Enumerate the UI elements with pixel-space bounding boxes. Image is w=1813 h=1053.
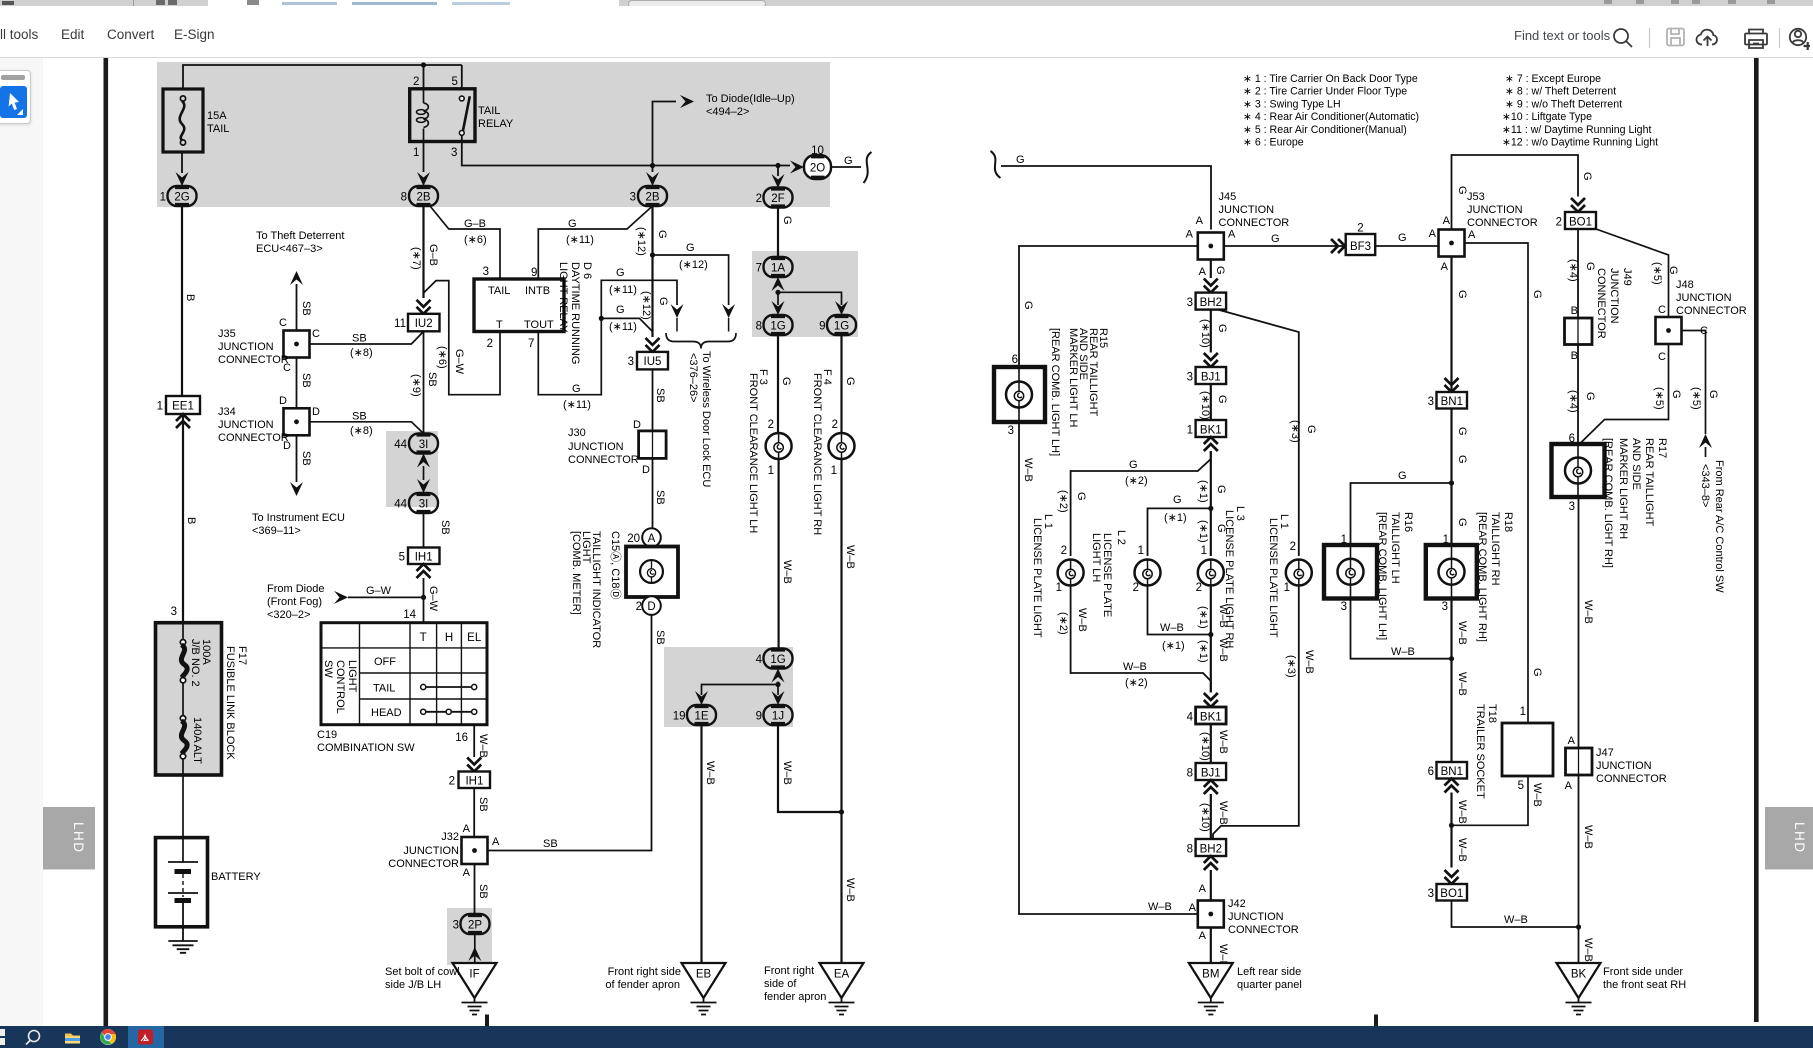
svg-text:G: G bbox=[686, 242, 695, 254]
label set bolt of cowl side bbox=[385, 966, 460, 991]
wire: F17 to battery bbox=[182, 775, 184, 862]
svg-text:<494–2>: <494–2> bbox=[706, 106, 749, 118]
svg-text:[REAR COMB. LIGHT RH]: [REAR COMB. LIGHT RH] bbox=[1476, 512, 1488, 642]
svg-text:2: 2 bbox=[449, 776, 455, 788]
label To Instrument ECU bbox=[252, 512, 345, 537]
combination switch C19 table bbox=[321, 623, 487, 725]
svg-text:G: G bbox=[656, 230, 668, 239]
svg-text:(∗3): (∗3) bbox=[1289, 420, 1301, 443]
svg-text:A: A bbox=[1189, 902, 1197, 914]
svg-text:SB: SB bbox=[654, 490, 666, 505]
wire W-B: R16 pin3 joins R18 wire bbox=[1351, 599, 1452, 659]
connector 2 BF3 bbox=[1346, 223, 1376, 256]
svg-text:Front side under: Front side under bbox=[1603, 966, 1683, 978]
svg-text:quarter panel: quarter panel bbox=[1237, 979, 1302, 991]
svg-text:1: 1 bbox=[1187, 425, 1193, 437]
svg-text:(∗10): (∗10) bbox=[1199, 803, 1211, 832]
arrow into 1G(9) bbox=[835, 301, 848, 315]
svg-text:3: 3 bbox=[1442, 601, 1448, 613]
svg-text:G: G bbox=[1214, 266, 1226, 275]
svg-text:JUNCTION: JUNCTION bbox=[218, 419, 274, 431]
svg-text:3: 3 bbox=[483, 266, 489, 278]
svg-text:W–B: W–B bbox=[1303, 650, 1315, 674]
svg-text:A: A bbox=[1568, 735, 1576, 747]
fusible link block F17 bbox=[156, 623, 222, 775]
wire G: J53 up-over to BO1 bbox=[1452, 155, 1594, 230]
wire: theft/instrument SB column bbox=[297, 284, 313, 482]
svg-text:G: G bbox=[1584, 262, 1596, 271]
svg-text:2B: 2B bbox=[645, 192, 659, 204]
junction connector J32 bbox=[388, 831, 500, 879]
svg-text:2F: 2F bbox=[771, 193, 784, 205]
svg-text:G: G bbox=[572, 383, 581, 395]
gray power-supply shade box bbox=[157, 62, 830, 207]
chevrons into IU5 bbox=[646, 338, 660, 352]
svg-text:2G: 2G bbox=[174, 192, 189, 204]
svg-text:W–B: W–B bbox=[1217, 604, 1229, 628]
wire G: J45 right to BF3 bbox=[1224, 233, 1345, 246]
wire: relay pin1 to 2B(8) bbox=[423, 142, 425, 173]
gray shade box 1A/1G connectors bbox=[752, 251, 858, 337]
svg-text:∗ 4 : Rear Air Conditioner(Aut: ∗ 4 : Rear Air Conditioner(Automatic) bbox=[1243, 111, 1419, 123]
svg-text:(∗10): (∗10) bbox=[1199, 732, 1211, 761]
svg-text:BK: BK bbox=[1571, 969, 1587, 981]
page left border bbox=[104, 58, 109, 1026]
svg-text:2: 2 bbox=[832, 419, 838, 431]
label EA front right side of fender apron bbox=[764, 965, 826, 1003]
svg-text:W–B: W–B bbox=[1076, 608, 1088, 632]
svg-text:44: 44 bbox=[394, 439, 407, 451]
wire: fuse top to relay pins 2 and 5 bbox=[183, 62, 462, 89]
svg-text:J35: J35 bbox=[218, 328, 236, 340]
wire: to-diode branch bbox=[653, 102, 677, 166]
svg-text:BK1: BK1 bbox=[1200, 425, 1222, 437]
arrow into 1E bbox=[695, 691, 708, 705]
svg-text:5: 5 bbox=[1518, 780, 1524, 792]
svg-text:(∗11): (∗11) bbox=[609, 284, 637, 296]
label C19 COMBINATION SW bbox=[317, 729, 415, 754]
svg-text:(∗5): (∗5) bbox=[1651, 262, 1663, 285]
wire G (*2): BK1 branch to L1a bbox=[1057, 451, 1211, 557]
svg-text:A: A bbox=[1196, 215, 1204, 227]
svg-text:To Diode(Idle–Up): To Diode(Idle–Up) bbox=[706, 93, 795, 105]
svg-text:LIGHT: LIGHT bbox=[346, 660, 358, 693]
connector 10 2O bbox=[804, 145, 831, 179]
svg-text:JUNCTION: JUNCTION bbox=[1608, 268, 1620, 324]
svg-text:(∗12): (∗12) bbox=[635, 227, 647, 256]
connector 8 BH2 bbox=[1187, 839, 1227, 856]
svg-text:3I: 3I bbox=[419, 499, 429, 511]
wire G-B (*7): 2B(8) to IU2 bbox=[410, 206, 439, 298]
connector 3 BO1 bbox=[1428, 884, 1467, 901]
chevrons into BO1b bbox=[1445, 870, 1459, 884]
chevrons into BF3 bbox=[1331, 239, 1345, 253]
svg-text:J49: J49 bbox=[1621, 268, 1633, 286]
ground BK bbox=[1557, 963, 1601, 1015]
svg-text:DAYTIME RUNNING: DAYTIME RUNNING bbox=[569, 262, 581, 364]
connector 6 BN1 bbox=[1428, 762, 1467, 779]
svg-text:CONTROL: CONTROL bbox=[334, 660, 346, 714]
svg-text:∗ 6 : Europe: ∗ 6 : Europe bbox=[1243, 137, 1304, 149]
wire SB: J32 to 2P bbox=[475, 864, 490, 914]
from diode (front fog) feed bbox=[267, 583, 424, 621]
arrow up to theft deterrent bbox=[290, 271, 303, 285]
svg-text:∗ 2 : Tire Carrier Under Floor: ∗ 2 : Tire Carrier Under Floor Type bbox=[1243, 86, 1407, 98]
svg-text:EB: EB bbox=[696, 969, 712, 981]
chevrons into BH2 bbox=[1204, 279, 1218, 293]
svg-text:H: H bbox=[445, 632, 453, 644]
svg-text:1: 1 bbox=[768, 465, 774, 477]
svg-text:SB: SB bbox=[654, 388, 666, 403]
svg-text:(∗6): (∗6) bbox=[464, 234, 487, 246]
svg-text:TOUT: TOUT bbox=[524, 319, 554, 331]
svg-text:W–B: W–B bbox=[844, 878, 856, 902]
wire G: J53 right to T18 pin1 bbox=[1465, 243, 1544, 723]
svg-text:9: 9 bbox=[756, 711, 762, 723]
arrow from rear AC control bbox=[1699, 434, 1712, 457]
svg-text:SB: SB bbox=[543, 838, 558, 850]
svg-text:19: 19 bbox=[673, 711, 686, 723]
svg-text:LIGHT LH: LIGHT LH bbox=[1090, 533, 1102, 582]
svg-text:8: 8 bbox=[756, 321, 762, 333]
svg-text:BK1: BK1 bbox=[1200, 712, 1222, 724]
svg-text:A: A bbox=[463, 823, 471, 835]
svg-text:∗ 3 : Swing Type LH: ∗ 3 : Swing Type LH bbox=[1243, 98, 1341, 110]
svg-text:7: 7 bbox=[756, 263, 762, 275]
svg-text:W–B: W–B bbox=[1456, 672, 1468, 696]
svg-text:TAIL: TAIL bbox=[207, 123, 229, 135]
svg-text:ECU<467–3>: ECU<467–3> bbox=[256, 243, 323, 255]
svg-text:16: 16 bbox=[455, 732, 468, 744]
chevrons into IU2 bbox=[417, 300, 431, 314]
svg-text:2: 2 bbox=[1556, 217, 1562, 229]
gray shade box 2P connector bbox=[447, 908, 492, 965]
svg-text:C: C bbox=[1658, 351, 1666, 363]
svg-text:LIGHT RELAY: LIGHT RELAY bbox=[557, 262, 569, 333]
svg-text:BM: BM bbox=[1202, 969, 1219, 981]
wire G: BN1 to R18, branch R16 bbox=[1341, 409, 1468, 547]
wire W-B: T18 pin5 to junction bbox=[1452, 776, 1544, 825]
svg-text:G: G bbox=[1305, 425, 1317, 434]
svg-text:(∗2): (∗2) bbox=[1125, 677, 1148, 689]
wire 1G(4) to 1E and 1J bbox=[702, 682, 781, 696]
lamp F4 front clearance light RH bbox=[829, 433, 855, 459]
wire G-B (*6): 2B(8) diagonal to daytime relay TAIL pin3 bbox=[430, 206, 500, 279]
svg-text:G: G bbox=[1531, 290, 1543, 299]
svg-text:W–B: W–B bbox=[1504, 914, 1528, 926]
svg-text:G–B: G–B bbox=[427, 244, 439, 266]
svg-text:(∗2): (∗2) bbox=[1057, 490, 1069, 513]
wire G (*11): TOUT pin7 net bbox=[538, 267, 677, 411]
svg-text:To Instrument ECU: To Instrument ECU bbox=[252, 512, 345, 524]
svg-text:1A: 1A bbox=[771, 263, 785, 275]
svg-text:R17: R17 bbox=[1656, 438, 1668, 458]
connectors 44 3I pair bbox=[394, 434, 438, 454]
svg-text:G–W: G–W bbox=[453, 349, 465, 375]
battery bbox=[156, 838, 262, 927]
svg-text:Front right: Front right bbox=[764, 965, 814, 977]
svg-text:1: 1 bbox=[831, 465, 837, 477]
svg-text:(∗8): (∗8) bbox=[350, 347, 373, 359]
svg-text:C: C bbox=[312, 328, 320, 340]
svg-text:1: 1 bbox=[1056, 582, 1062, 594]
wire G (*12): 2B(3) column to IU5 bbox=[635, 206, 669, 337]
wire W-B: C19 pin16 to IH1(2) bbox=[455, 725, 489, 758]
svg-text:W–B: W–B bbox=[1022, 458, 1034, 482]
taillight R17 rear taillight and side marker RH bbox=[1552, 444, 1605, 513]
svg-text:20: 20 bbox=[627, 533, 640, 545]
svg-text:1: 1 bbox=[157, 401, 163, 413]
svg-text:W–B: W–B bbox=[1217, 638, 1229, 662]
junction connector J35 bbox=[218, 317, 320, 374]
svg-text:W–B: W–B bbox=[781, 560, 793, 584]
ground below battery bbox=[168, 903, 197, 953]
wire W-B: F4 to EA junction bbox=[831, 459, 856, 963]
svg-text:LHD: LHD bbox=[1792, 822, 1807, 854]
label L1 license plate light (right) bbox=[1267, 514, 1290, 638]
wire SB: meter D down and left to J32 bbox=[488, 615, 667, 851]
svg-text:G: G bbox=[1456, 290, 1468, 299]
chevrons below IH1 pointing up bbox=[417, 564, 431, 578]
svg-text:A: A bbox=[1468, 229, 1476, 241]
svg-text:(∗3): (∗3) bbox=[1285, 655, 1297, 678]
svg-text:of fender apron: of fender apron bbox=[605, 979, 680, 991]
arrow into 2B(8) bbox=[417, 172, 430, 186]
svg-text:COMBINATION SW: COMBINATION SW bbox=[317, 742, 415, 754]
svg-text:A: A bbox=[1199, 930, 1207, 942]
wire SB: 3I to IH1 bbox=[424, 513, 452, 548]
svg-text:FUSIBLE LINK BLOCK: FUSIBLE LINK BLOCK bbox=[224, 646, 236, 760]
label R17 bbox=[1602, 438, 1668, 568]
legend column 2 bbox=[1502, 73, 1658, 149]
svg-text:J42: J42 bbox=[1228, 898, 1246, 910]
svg-text:[REAR COMB. LIGHT RH]: [REAR COMB. LIGHT RH] bbox=[1602, 438, 1614, 568]
wire B: EE1 to F17 bbox=[171, 414, 197, 622]
svg-text:side J/B LH: side J/B LH bbox=[385, 979, 441, 991]
svg-text:1: 1 bbox=[160, 192, 166, 204]
arrow into 1J bbox=[772, 691, 785, 705]
svg-text:G: G bbox=[1584, 392, 1596, 401]
svg-text:JUNCTION: JUNCTION bbox=[1219, 204, 1275, 216]
svg-text:A: A bbox=[1186, 229, 1194, 241]
label L3 license plate light RH bbox=[1223, 506, 1246, 648]
svg-text:(∗1): (∗1) bbox=[1197, 640, 1209, 663]
wire fuse to 2G bbox=[181, 152, 183, 173]
wire W-B: F3 to 1G(4) bbox=[768, 459, 793, 649]
svg-text:11: 11 bbox=[394, 318, 406, 330]
svg-text:G: G bbox=[1215, 485, 1227, 494]
arrow to diode bbox=[680, 95, 694, 108]
svg-text:D: D bbox=[312, 406, 320, 418]
svg-text:W–B: W–B bbox=[1456, 621, 1468, 645]
svg-text:JUNCTION: JUNCTION bbox=[403, 845, 459, 857]
svg-text:2O: 2O bbox=[810, 163, 825, 175]
connector 3 2P bbox=[453, 914, 490, 934]
svg-text:3: 3 bbox=[451, 147, 457, 159]
wire G (*11): INTB pin9 to 2B(3) bbox=[538, 206, 652, 279]
wire G from 2O to break bbox=[831, 155, 861, 167]
svg-text:∗ 8 : w/ Theft Deterrent: ∗ 8 : w/ Theft Deterrent bbox=[1505, 86, 1616, 98]
svg-text:∗12 : w/o Daytime Running Ligh: ∗12 : w/o Daytime Running Light bbox=[1502, 137, 1658, 149]
svg-text:<369–11>: <369–11> bbox=[252, 525, 301, 537]
svg-text:D: D bbox=[647, 601, 655, 613]
svg-text:G: G bbox=[1216, 324, 1228, 333]
wire SB (*8) J35 to IU2 bbox=[310, 332, 424, 360]
wire G: BF3 to J53 bbox=[1375, 232, 1438, 246]
svg-text:A: A bbox=[1443, 215, 1451, 227]
junction connector J42 bbox=[1189, 898, 1299, 942]
svg-text:2: 2 bbox=[1290, 541, 1296, 553]
label To Diode(Idle-Up) bbox=[706, 93, 795, 118]
wire: drop to 2F bbox=[777, 166, 779, 177]
svg-text:SB: SB bbox=[300, 451, 312, 466]
label To Theft Deterrent ECU bbox=[256, 230, 344, 255]
svg-text:Front right side: Front right side bbox=[608, 966, 681, 978]
svg-text:(Front Fog): (Front Fog) bbox=[267, 596, 322, 608]
arrow into 2O bbox=[790, 161, 804, 174]
svg-text:3: 3 bbox=[1341, 601, 1347, 613]
taillight R16 taillight LH bbox=[1324, 545, 1377, 613]
svg-text:(∗1): (∗1) bbox=[1162, 640, 1185, 652]
svg-text:G: G bbox=[1531, 668, 1543, 677]
svg-text:J53: J53 bbox=[1467, 191, 1485, 203]
svg-text:IH1: IH1 bbox=[415, 552, 433, 564]
svg-text:(∗10): (∗10) bbox=[1199, 319, 1211, 348]
wire G (*12) branch to wireless 2 bbox=[653, 242, 729, 305]
svg-text:BJ1: BJ1 bbox=[1201, 768, 1221, 780]
svg-text:<343–8>: <343–8> bbox=[1699, 464, 1711, 507]
chevrons into BN1 bbox=[1445, 378, 1459, 392]
wire W-B: 1J joins F4 wire bbox=[778, 725, 842, 812]
svg-text:TAILLIGHT LH: TAILLIGHT LH bbox=[1389, 512, 1401, 584]
svg-text:CONNECTOR: CONNECTOR bbox=[1596, 773, 1667, 785]
svg-text:To Theft Deterrent: To Theft Deterrent bbox=[256, 230, 344, 242]
label BM left rear side quarter panel bbox=[1237, 966, 1302, 991]
svg-text:LICENSE PLATE LIGHT: LICENSE PLATE LIGHT bbox=[1031, 518, 1043, 638]
svg-text:T: T bbox=[496, 319, 503, 331]
svg-text:BO1: BO1 bbox=[1440, 888, 1463, 900]
arrow up into 3I upper bbox=[417, 454, 430, 468]
svg-text:JUNCTION: JUNCTION bbox=[1596, 760, 1652, 772]
svg-text:4: 4 bbox=[756, 654, 763, 666]
arrow up into 1A bottom bbox=[772, 277, 785, 291]
svg-text:W–B: W–B bbox=[1148, 901, 1172, 913]
svg-text:IU2: IU2 bbox=[415, 318, 433, 330]
svg-text:(∗2): (∗2) bbox=[1125, 475, 1148, 487]
label EB front right side of fender apron bbox=[605, 966, 681, 991]
wire G: 1G(8) to F3 lamp bbox=[768, 335, 792, 433]
connector 4 BK1 bbox=[1187, 707, 1227, 724]
svg-text:B: B bbox=[184, 294, 196, 301]
svg-text:(∗1): (∗1) bbox=[1197, 606, 1209, 629]
svg-text:A: A bbox=[1441, 261, 1449, 273]
svg-text:JUNCTION: JUNCTION bbox=[1467, 204, 1523, 216]
wire G (*1): BK1 to L3, branch L2 bbox=[1138, 451, 1227, 557]
svg-text:(∗9): (∗9) bbox=[410, 374, 422, 397]
svg-text:2B: 2B bbox=[416, 192, 430, 204]
svg-text:Left rear side: Left rear side bbox=[1237, 966, 1301, 978]
wire W-B: 1E to EB ground bbox=[702, 725, 717, 963]
wire 1A to 1G pair bbox=[775, 290, 841, 305]
label L1 license plate light (left) bbox=[1031, 514, 1054, 638]
svg-text:[REAR COMB. LIGHT LH]: [REAR COMB. LIGHT LH] bbox=[1049, 328, 1061, 456]
lamp L3 license plate light RH bbox=[1198, 560, 1224, 586]
svg-text:2: 2 bbox=[636, 601, 642, 613]
chevrons into BJ1 bbox=[1204, 353, 1218, 367]
svg-text:G: G bbox=[1456, 427, 1468, 436]
svg-text:CONNECTOR: CONNECTOR bbox=[388, 858, 459, 870]
svg-text:2P: 2P bbox=[468, 920, 482, 932]
svg-text:W–B: W–B bbox=[1582, 600, 1594, 624]
wire G (*5): J48 down to R17 pin6 bbox=[1580, 344, 1683, 444]
svg-text:L 2: L 2 bbox=[1115, 530, 1127, 545]
svg-text:(∗10): (∗10) bbox=[1199, 391, 1211, 420]
svg-text:G: G bbox=[616, 304, 625, 316]
svg-text:G: G bbox=[568, 218, 577, 230]
svg-text:G–W: G–W bbox=[366, 585, 392, 597]
junction connector J48 bbox=[1656, 279, 1747, 363]
junction connector J30 bbox=[568, 427, 666, 466]
svg-text:A: A bbox=[492, 836, 500, 848]
wire W-B: BO1b to BK junction bbox=[1452, 901, 1580, 928]
svg-text:JUNCTION: JUNCTION bbox=[568, 441, 624, 453]
ground EB bbox=[682, 963, 726, 1015]
chevrons into IH1(2) bbox=[467, 758, 481, 772]
wire: BH2b to J42 bbox=[1199, 870, 1211, 901]
svg-text:A: A bbox=[1228, 229, 1236, 241]
svg-text:TRAILER SOCKET: TRAILER SOCKET bbox=[1474, 704, 1486, 799]
lamp F3 front clearance light LH bbox=[766, 433, 792, 459]
wire W-B (*10): BJ1b to BH2b bbox=[1199, 794, 1229, 839]
svg-text:[COMB. METER]: [COMB. METER] bbox=[570, 531, 582, 615]
wire W-B (*1): L3 to BK1b bbox=[1196, 582, 1229, 693]
svg-text:1G: 1G bbox=[770, 321, 785, 333]
svg-text:2: 2 bbox=[756, 193, 762, 205]
connector 3 BJ1 bbox=[1187, 367, 1227, 384]
svg-text:9: 9 bbox=[531, 267, 537, 279]
svg-text:SB: SB bbox=[477, 797, 489, 812]
svg-text:(∗11): (∗11) bbox=[563, 399, 591, 411]
svg-text:SB: SB bbox=[439, 520, 451, 535]
svg-text:the front seat RH: the front seat RH bbox=[1603, 979, 1686, 991]
connector 1 BK1 bbox=[1187, 420, 1227, 437]
connector 7 1A bbox=[756, 257, 793, 277]
chevrons below EE1 bbox=[176, 414, 190, 428]
svg-text:(∗6): (∗6) bbox=[436, 346, 448, 369]
svg-text:(∗1): (∗1) bbox=[1197, 520, 1209, 543]
svg-text:G–B: G–B bbox=[464, 218, 486, 230]
wire W-B: R15 pin3 to J42 bbox=[1019, 422, 1198, 914]
svg-text:1E: 1E bbox=[694, 711, 708, 723]
svg-text:(∗11): (∗11) bbox=[566, 234, 594, 246]
svg-text:G: G bbox=[657, 297, 669, 306]
label T18 TRAILER SOCKET bbox=[1474, 704, 1498, 799]
svg-text:∗10 : Liftgate Type: ∗10 : Liftgate Type bbox=[1502, 111, 1592, 123]
connector 3 IU5 bbox=[628, 352, 668, 370]
arrow into 1G(8) bbox=[772, 301, 785, 315]
wire W-B (*1): L2 to L3 wire bbox=[1133, 582, 1211, 652]
svg-text:FRONT CLEARANCE LIGHT RH: FRONT CLEARANCE LIGHT RH bbox=[811, 373, 823, 535]
trailer socket T18 bbox=[1502, 723, 1553, 776]
wire G (*5): BO1 diagonal to J48 bbox=[1596, 229, 1679, 317]
fuse 15A TAIL bbox=[163, 89, 229, 152]
svg-text:G: G bbox=[1075, 492, 1087, 501]
wire G: 2F to 1A bbox=[778, 208, 793, 258]
arrow up into 1G(4) bottom bbox=[772, 669, 785, 683]
svg-text:∗ 5 : Rear Air Conditioner(Man: ∗ 5 : Rear Air Conditioner(Manual) bbox=[1243, 124, 1407, 136]
svg-text:G: G bbox=[1271, 233, 1280, 245]
label F4 FRONT CLEARANCE LIGHT RH bbox=[811, 369, 833, 535]
